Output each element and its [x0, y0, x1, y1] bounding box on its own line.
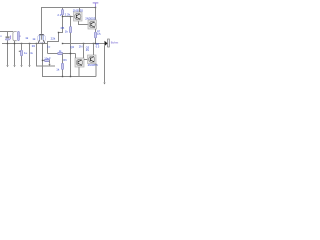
svg-text:2N: 2N [79, 45, 83, 49]
svg-text:R6: R6 [63, 59, 67, 62]
wire Q4 collector up [83, 44, 85, 59]
transistor Q4 box [75, 58, 84, 67]
svg-text:0.5: 0.5 [97, 33, 101, 36]
wire y53 branch [48, 44, 76, 55]
node dots bottom rail [62, 76, 63, 77]
svg-text:Q4: Q4 [70, 45, 74, 49]
wire branch x42.5 down to bottom rail [43, 44, 97, 77]
svg-text:1k: 1k [25, 36, 29, 40]
staircase wire bus to Q1 base line [48, 8, 63, 44]
resistor R5 vertical x70.5 [70, 17, 72, 77]
wire Q5 collector up [93, 44, 95, 56]
wire vcc drop to Q2 collector [95, 8, 97, 21]
svg-text:0.5: 0.5 [96, 45, 100, 48]
resistor R4 body on x62.5 [62, 10, 64, 15]
svg-text:R2: R2 [32, 45, 36, 48]
wire Q3 emitter down + resistor R7 [95, 29, 97, 44]
wire Q4 to Q5 base link [84, 59, 88, 61]
capacitor C2 horizontal [42, 59, 50, 61]
svg-text:2.2k: 2.2k [65, 12, 71, 16]
svg-text:1k: 1k [32, 37, 36, 41]
transistor Q2 box [74, 12, 83, 21]
transistor Q5 box [88, 55, 97, 64]
svg-text:2N3055: 2N3055 [85, 16, 96, 20]
svg-text:2.2: 2.2 [57, 13, 61, 17]
resistor R6 vertical x62.5 lower [62, 54, 64, 77]
wire input top line [0, 31, 13, 33]
wire mic down [14, 41, 16, 65]
svg-text:1u: 1u [24, 51, 28, 55]
ground arrow 4 [28, 65, 30, 67]
svg-text:1k: 1k [56, 68, 60, 72]
svg-text:10uF: 10uF [44, 56, 51, 60]
ground arrow 2 [13, 65, 15, 67]
wire main bus [2, 43, 48, 45]
capacitor C1 branch [19, 44, 23, 66]
power terminal VCC [93, 3, 99, 8]
svg-text:22k: 22k [51, 37, 56, 41]
ground arrow 1 [6, 65, 8, 67]
svg-text:1u: 1u [47, 45, 51, 49]
svg-text:2N3055: 2N3055 [73, 8, 84, 12]
wire Q4 emitter down [78, 67, 80, 77]
wire top power rail [42, 8, 96, 34]
wire Q5 emitter to bottom rail [95, 64, 97, 77]
svg-text:1k: 1k [30, 52, 33, 55]
transistor Q1 (driver, circle style) [37, 29, 45, 43]
wire output line [63, 43, 105, 45]
wire Q2 emitter to Q3 base [79, 21, 89, 25]
wire cap to ground arrow [49, 60, 51, 63]
resistor R1 branch [29, 44, 31, 66]
ground arrow 3 [20, 65, 22, 67]
wire Q2 collector up [79, 8, 81, 13]
transistor Q3 box [88, 20, 97, 29]
speaker LS1 [105, 39, 110, 47]
wire branch x37 to lower left rail [37, 44, 56, 67]
svg-text:1k: 1k [65, 30, 69, 34]
svg-text:2N: 2N [86, 49, 89, 52]
ground arrow 5 [48, 64, 50, 66]
node dots on bus [7, 43, 8, 44]
svg-text:2N3055: 2N3055 [88, 63, 99, 67]
svg-text:v: v [0, 34, 2, 38]
ground arrow speaker [103, 83, 105, 85]
source V1 [6, 32, 12, 66]
wire speaker to ground [104, 46, 106, 82]
svg-text:8ohm: 8ohm [111, 41, 119, 45]
node dot at 58.5,32.5 [58, 32, 59, 33]
wire Q1 base line [63, 16, 74, 18]
microphone MIC1 [13, 32, 21, 41]
